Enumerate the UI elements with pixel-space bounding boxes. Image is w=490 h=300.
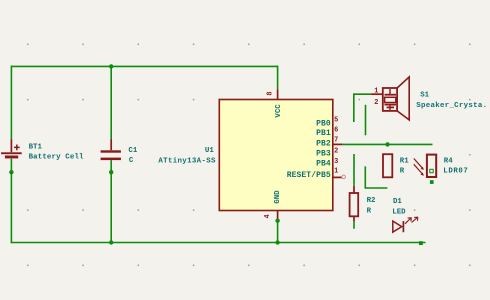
- wire vertical hanging near speaker pin2: [365, 105, 367, 136]
- svg-text:2: 2: [374, 99, 378, 107]
- svg-text:LDR07: LDR07: [443, 167, 468, 175]
- wire below capacitor to bottom rail: [110, 160, 112, 243]
- wire top rail VCC: [11, 65, 278, 67]
- svg-text:4: 4: [264, 214, 272, 218]
- junction node at capacitor branch on top rail: [109, 64, 113, 68]
- svg-text:1: 1: [374, 88, 378, 96]
- svg-text:LED: LED: [392, 209, 406, 217]
- svg-text:2: 2: [334, 148, 338, 156]
- speaker S1 Speaker_Crystal body: [383, 77, 409, 120]
- wire stub below R2: [353, 222, 355, 229]
- pin 7 stub PB2: [333, 143, 343, 145]
- IC U1 ATtiny13A-SS body: [219, 100, 332, 211]
- svg-text:ATtiny13A-SS: ATtiny13A-SS: [158, 157, 216, 165]
- svg-text:RESET/PB5: RESET/PB5: [287, 171, 331, 180]
- wire PB2 net horizontal: [343, 143, 433, 145]
- svg-text:VCC: VCC: [275, 104, 283, 118]
- svg-text:C: C: [129, 157, 134, 165]
- resistor R1: [383, 154, 392, 177]
- battery BT1 symbol: [1, 139, 22, 158]
- svg-text:R4: R4: [444, 158, 453, 166]
- svg-text:1: 1: [334, 168, 338, 176]
- svg-text:R: R: [400, 167, 405, 175]
- svg-text:PB3: PB3: [316, 149, 331, 158]
- light arrow 1 into R4: [414, 159, 423, 169]
- svg-text:5: 5: [334, 117, 338, 125]
- junction PB2 net above R1: [385, 142, 389, 146]
- svg-text:Speaker_Crysta.: Speaker_Crysta.: [416, 102, 487, 110]
- svg-text:Battery Cell: Battery Cell: [29, 154, 84, 162]
- wire end open square inside R4: [430, 169, 433, 172]
- wire end marker square on bottom rail: [419, 241, 423, 245]
- svg-text:3: 3: [334, 158, 338, 166]
- wire bottom ground rail: [11, 242, 425, 244]
- wire speaker pin1 horizontal: [354, 93, 371, 95]
- junction below battery: [9, 170, 13, 174]
- junction capacitor at bottom rail: [109, 240, 113, 244]
- svg-text:PB4: PB4: [316, 160, 331, 169]
- wire left vertical from top rail to battery: [10, 66, 12, 140]
- svg-text:8: 8: [267, 92, 275, 96]
- svg-text:U1: U1: [205, 147, 214, 155]
- pin 8 VCC stub: [277, 89, 279, 99]
- grid dots: [27, 43, 471, 266]
- LED D1: [393, 217, 418, 232]
- svg-text:PB0: PB0: [316, 119, 331, 128]
- junction GND at bottom rail: [275, 240, 279, 244]
- wire capacitor branch vertical: [110, 66, 112, 139]
- svg-text:BT1: BT1: [29, 144, 43, 152]
- wire from PB2 area down to R2: [353, 154, 355, 186]
- svg-text:7: 7: [334, 137, 338, 145]
- wire GND pin to bottom rail: [277, 221, 279, 243]
- svg-text:R2: R2: [367, 197, 376, 205]
- unconnected pin circle: [342, 175, 346, 179]
- svg-text:R: R: [367, 207, 372, 215]
- resistor R2: [350, 186, 359, 222]
- capacitor C1 symbol: [101, 139, 121, 160]
- wire below battery to bottom rail: [10, 159, 12, 244]
- junction below capacitor: [109, 170, 113, 174]
- svg-text:6: 6: [334, 126, 338, 134]
- svg-text:PB2: PB2: [316, 139, 331, 148]
- wire end filled square below R4: [430, 180, 434, 184]
- pin 1 stub RESET: [333, 176, 342, 178]
- speaker S1 pin 1 stub: [371, 93, 383, 95]
- light arrow 2 into R4: [414, 164, 423, 174]
- photoresistor R4 LDR07 body: [427, 155, 436, 177]
- wire VCC drop to U1 pin 8: [277, 66, 279, 90]
- pin 4 GND stub: [277, 211, 279, 221]
- svg-text:C1: C1: [128, 147, 137, 155]
- svg-text:R1: R1: [400, 158, 409, 166]
- wire vertical below speaker pin1: [353, 93, 355, 122]
- svg-text:GND: GND: [274, 190, 282, 204]
- node wire end at GND pin: [275, 219, 279, 223]
- svg-text:S1: S1: [420, 92, 429, 100]
- svg-text:D1: D1: [393, 198, 402, 206]
- wire L-shape below R1: [365, 166, 387, 188]
- svg-text:PB1: PB1: [316, 129, 331, 138]
